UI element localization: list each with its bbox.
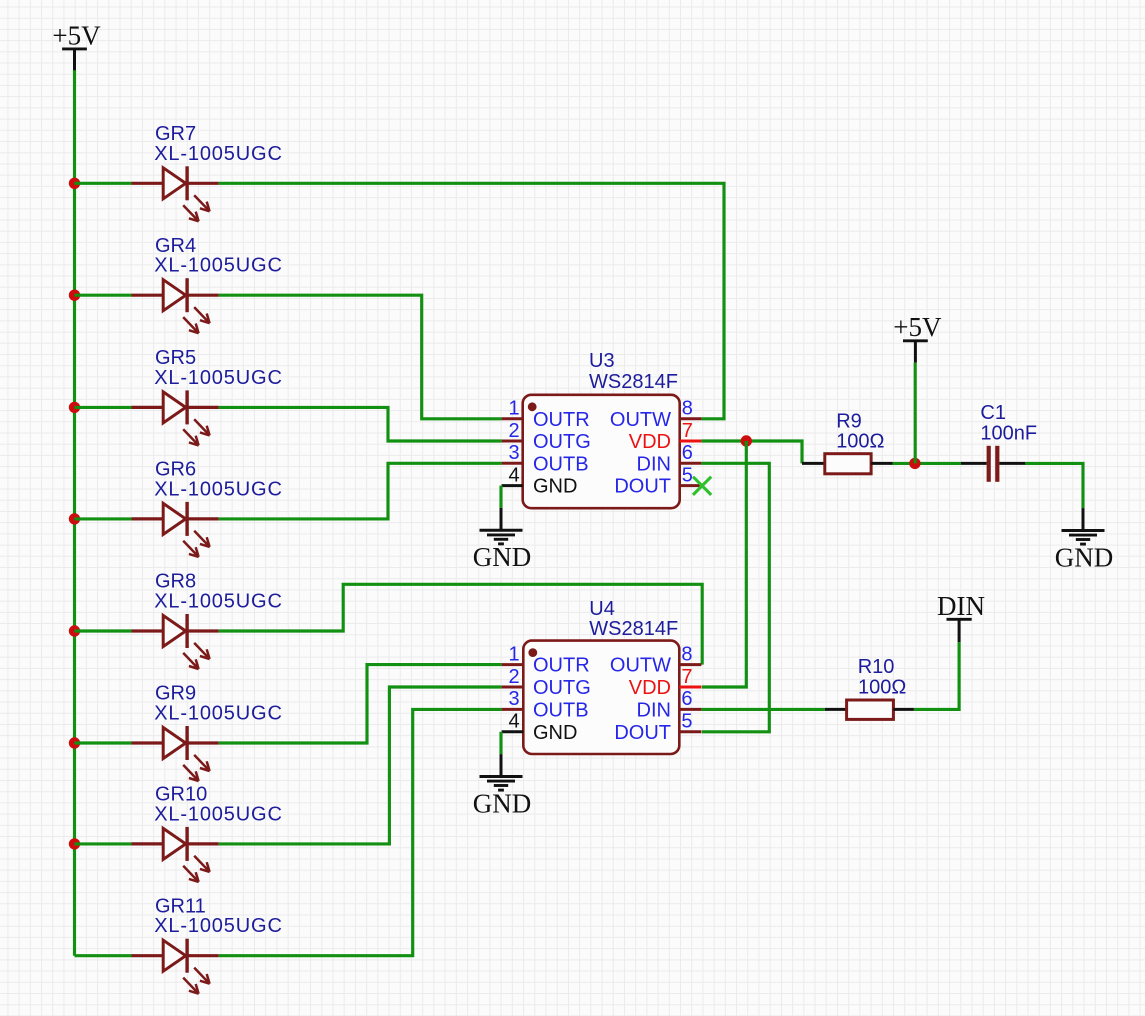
- resistor R9 body: [825, 454, 871, 474]
- wire +5V vertical rail: [73, 70, 76, 956]
- svg-text:4: 4: [508, 711, 519, 733]
- U3 pin 4 stub: [502, 484, 523, 487]
- svg-text:DIN: DIN: [937, 591, 985, 621]
- LED GR11: [132, 939, 219, 994]
- IC U3 pin 1 marker dot: [528, 402, 537, 411]
- wire U4 pin 6 DIN to R10: [701, 708, 825, 711]
- U3 pin 7 stub: [680, 440, 702, 443]
- wire GR8 cathode net: [219, 584, 702, 664]
- junction dot GR9 on +5V rail: [69, 737, 80, 748]
- svg-text:XL-1005UGC: XL-1005UGC: [154, 478, 283, 500]
- resistor R9 right lead: [871, 462, 892, 465]
- svg-text:100nF: 100nF: [980, 423, 1037, 445]
- svg-text:R9: R9: [836, 411, 862, 433]
- svg-text:DIN: DIN: [637, 699, 671, 721]
- svg-text:GND: GND: [533, 476, 577, 498]
- svg-text:5: 5: [681, 711, 692, 733]
- wire C1 to ground: [1025, 463, 1083, 508]
- svg-text:R10: R10: [858, 656, 895, 678]
- svg-text:XL-1005UGC: XL-1005UGC: [154, 255, 283, 277]
- svg-text:XL-1005UGC: XL-1005UGC: [154, 915, 283, 937]
- svg-text:100Ω: 100Ω: [858, 677, 906, 699]
- svg-text:XL-1005UGC: XL-1005UGC: [154, 367, 283, 389]
- junction dot GR4 on +5V rail: [69, 290, 80, 301]
- svg-text:GR7: GR7: [155, 123, 196, 145]
- wire +5V rail to GR5 anode: [75, 406, 132, 409]
- wire GR9 cathode net: [219, 665, 502, 743]
- svg-text:4: 4: [508, 464, 519, 486]
- svg-text:GR9: GR9: [155, 683, 196, 705]
- svg-text:OUTB: OUTB: [533, 453, 589, 475]
- IC U4 body WS2814F: [523, 641, 679, 754]
- resistor R9 left lead: [802, 462, 825, 465]
- ground symbol GND (right): [1055, 508, 1114, 572]
- U3 pin 8 stub: [680, 417, 702, 420]
- svg-text:VDD: VDD: [629, 677, 671, 699]
- power symbol +5V (right): [893, 312, 942, 362]
- svg-text:XL-1005UGC: XL-1005UGC: [154, 703, 283, 725]
- resistor R10 right lead: [893, 708, 914, 711]
- junction dot GR7 on +5V rail: [69, 178, 80, 189]
- svg-text:WS2814F: WS2814F: [589, 371, 678, 393]
- svg-text:DOUT: DOUT: [614, 476, 671, 498]
- junction dot GR8 on +5V rail: [69, 625, 80, 636]
- svg-text:XL-1005UGC: XL-1005UGC: [154, 591, 283, 613]
- svg-text:XL-1005UGC: XL-1005UGC: [154, 803, 283, 825]
- net flag DIN: [937, 591, 985, 642]
- wire U3 pin 6 DIN to U4 pin 5 DOUT: [701, 463, 769, 732]
- svg-text:GND: GND: [533, 722, 577, 744]
- junction dot GR6 on +5V rail: [69, 513, 80, 524]
- svg-text:OUTR: OUTR: [533, 409, 590, 431]
- LED GR9: [132, 726, 219, 781]
- wire +5V right down to node: [914, 363, 917, 464]
- junction dot +5V/C1 node: [909, 458, 920, 469]
- U3 pin 5 stub: [680, 484, 702, 487]
- U4 pin 6 stub: [679, 708, 701, 711]
- svg-text:8: 8: [681, 643, 692, 665]
- LED GR10: [132, 827, 219, 882]
- resistor R10 body: [847, 700, 894, 719]
- svg-text:6: 6: [682, 442, 693, 464]
- wire +5V rail to GR11 anode: [75, 954, 132, 957]
- wire GR10 cathode net: [219, 687, 502, 844]
- svg-text:2: 2: [508, 666, 519, 688]
- wire +5V rail to GR7 anode: [75, 182, 132, 185]
- wire R9 to C1 node: [893, 462, 962, 465]
- svg-text:5: 5: [682, 464, 693, 486]
- wire +5V rail to GR6 anode: [75, 517, 132, 520]
- LED GR8: [132, 614, 219, 669]
- U4 pin 7 stub: [679, 686, 701, 689]
- svg-text:100Ω: 100Ω: [836, 431, 884, 453]
- ground symbol GND (U3): [473, 508, 532, 572]
- wire VDD node down to U4 pin 7: [702, 441, 746, 687]
- wire U3 pin 4 to ground: [499, 486, 502, 508]
- junction dot GR5 on +5V rail: [69, 402, 80, 413]
- wire +5V rail to GR10 anode: [75, 842, 132, 845]
- LED GR6: [132, 502, 219, 557]
- svg-text:OUTG: OUTG: [533, 677, 591, 699]
- LED GR4: [132, 278, 219, 333]
- U3 pin 6 stub: [680, 462, 702, 465]
- svg-text:XL-1005UGC: XL-1005UGC: [154, 143, 283, 165]
- U3 pin 3 stub: [502, 462, 523, 465]
- svg-text:7: 7: [681, 666, 692, 688]
- svg-text:U3: U3: [589, 350, 615, 372]
- capacitor C1 right plate: [995, 446, 999, 482]
- svg-text:6: 6: [681, 688, 692, 710]
- svg-text:GR8: GR8: [155, 571, 196, 593]
- svg-text:3: 3: [508, 442, 519, 464]
- svg-text:WS2814F: WS2814F: [589, 618, 678, 640]
- capacitor C1 left plate: [987, 446, 991, 482]
- svg-text:OUTR: OUTR: [533, 655, 590, 677]
- svg-text:3: 3: [508, 688, 519, 710]
- svg-text:GR11: GR11: [155, 895, 206, 917]
- resistor R10 left lead: [825, 708, 847, 711]
- capacitor C1 left lead: [961, 462, 987, 465]
- svg-text:C1: C1: [980, 402, 1006, 424]
- U4 pin 4 stub: [502, 730, 524, 733]
- svg-text:GR6: GR6: [155, 459, 196, 481]
- wire R10 to DIN flag: [914, 642, 959, 709]
- svg-text:8: 8: [682, 398, 693, 420]
- LED GR5: [132, 390, 219, 445]
- wire GR5 cathode net: [219, 407, 502, 441]
- U3 pin 2 stub: [502, 440, 523, 443]
- LED GR7: [132, 166, 219, 221]
- wire +5V rail to GR9 anode: [75, 741, 132, 744]
- svg-text:1: 1: [508, 398, 519, 420]
- junction dot VDD node: [741, 435, 752, 446]
- wire +5V rail to GR4 anode: [75, 294, 132, 297]
- wire GR6 cathode net: [219, 463, 502, 519]
- ground symbol GND (U4): [473, 754, 532, 818]
- wire U3 pin 7 VDD to R9: [701, 441, 802, 463]
- svg-text:OUTG: OUTG: [533, 431, 591, 453]
- U3 pin 1 stub: [502, 417, 523, 420]
- capacitor C1 right lead: [999, 462, 1025, 465]
- wire GR11 cathode net: [219, 709, 502, 955]
- wire U4 pin 4 to ground: [499, 732, 502, 754]
- no-connect X on U3 pin 5 DOUT: [693, 477, 711, 495]
- svg-text:OUTW: OUTW: [610, 655, 671, 677]
- wire GR7 cathode net: [219, 183, 724, 418]
- svg-text:OUTW: OUTW: [610, 409, 671, 431]
- svg-text:7: 7: [682, 420, 693, 442]
- U4 pin 3 stub: [502, 708, 524, 711]
- U4 pin 5 stub: [679, 730, 701, 733]
- svg-text:GR10: GR10: [155, 784, 207, 806]
- junction dot GR10 on +5V rail: [69, 838, 80, 849]
- svg-text:DIN: DIN: [637, 453, 671, 475]
- wire GR4 cathode net: [219, 295, 502, 419]
- svg-text:OUTB: OUTB: [533, 699, 589, 721]
- IC U3 body WS2814F: [523, 395, 680, 508]
- power symbol +5V (left): [52, 20, 101, 70]
- svg-text:GR5: GR5: [155, 347, 196, 369]
- U4 pin 1 stub: [502, 663, 524, 666]
- IC U4 pin 1 marker dot: [528, 648, 537, 657]
- svg-text:1: 1: [508, 643, 519, 665]
- svg-text:GR4: GR4: [155, 235, 196, 257]
- U4 pin 8 stub: [679, 663, 701, 666]
- svg-text:2: 2: [508, 420, 519, 442]
- svg-text:VDD: VDD: [629, 431, 671, 453]
- U4 pin 2 stub: [502, 686, 524, 689]
- svg-text:DOUT: DOUT: [614, 722, 671, 744]
- wire +5V rail to GR8 anode: [75, 629, 132, 632]
